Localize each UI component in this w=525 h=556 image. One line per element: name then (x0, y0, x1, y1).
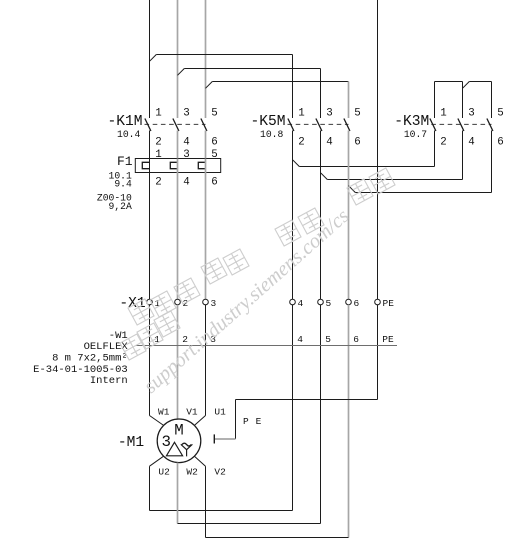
motor M1 body circle (157, 419, 201, 463)
terminal X1:3 circle (203, 299, 209, 305)
svg-text:1: 1 (155, 149, 161, 161)
node T-junction on L2 feeding branch to K5M:3 (178, 69, 185, 76)
svg-text:1: 1 (298, 108, 304, 120)
wire motor W2 vertical to bottom link (177, 463, 179, 524)
wire link K5M:6 to K3M:6 horizontal (355, 192, 491, 194)
svg-text:4: 4 (468, 136, 474, 148)
wire X1:6 down to bottom link of motor V2 (348, 305, 350, 538)
overload relay F1 pole 2 wire through box (177, 159, 179, 173)
motor M1 AC tilde symbol (182, 443, 191, 446)
wire motor W1 stub diagonal (150, 416, 164, 426)
svg-text:5: 5 (325, 334, 331, 345)
node junction K5M:6 branch diagonal (349, 186, 356, 193)
svg-text:-K5M: -K5M (250, 114, 285, 130)
wire branch L1 to K5M:1 horizontal (156, 54, 292, 56)
wire motor U1 stub diagonal (194, 416, 205, 426)
svg-text:PE: PE (383, 298, 395, 309)
svg-text:Intern: Intern (90, 375, 128, 387)
wire bottom link V2 to X1:6 horizontal (206, 537, 349, 539)
svg-text:6: 6 (497, 136, 503, 148)
wire K5M:6 down to X1:6 (348, 131, 350, 300)
svg-text:U1: U1 (214, 407, 226, 418)
svg-text:4: 4 (183, 136, 189, 148)
svg-text:F1: F1 (117, 154, 133, 169)
contactor K3M pole 2 NO contact lever (458, 119, 464, 132)
wire K3M:2 vertical down to link (434, 131, 436, 167)
terminal X1:PE circle (375, 299, 381, 305)
svg-text:3: 3 (183, 108, 189, 120)
svg-text:W2: W2 (186, 466, 198, 477)
svg-text:1: 1 (440, 108, 446, 120)
svg-text:2: 2 (298, 136, 304, 148)
node star-bridge T-junction diagonal at K3M pin 3 (463, 82, 470, 89)
svg-text:10.4: 10.4 (117, 129, 140, 140)
motor M1 delta winding symbol (166, 442, 182, 456)
svg-text:P E: P E (243, 416, 262, 427)
svg-text:8 m 7x2,5mm²: 8 m 7x2,5mm² (52, 353, 128, 365)
wire PE vertical (top to X1:PE) (377, 0, 379, 299)
svg-text:6: 6 (211, 176, 217, 188)
wire L2 phase vertical (top to K1M:3) (177, 0, 179, 118)
svg-text:9,2A: 9,2A (109, 201, 132, 212)
cable -W1 symbol line (136, 345, 397, 347)
watermark chinese characters band (120, 168, 395, 360)
svg-text:5: 5 (211, 108, 217, 120)
wire branch corner down to K5M pin 1 (292, 55, 294, 119)
wire K1M:6 to F1:5 (205, 131, 207, 159)
svg-text:6: 6 (211, 136, 217, 148)
overload relay F1 pole 3 thermal element (198, 162, 205, 168)
wire branch L3 to K5M:5 horizontal (212, 81, 348, 83)
overload relay F1 pole 2 thermal element (170, 162, 177, 168)
motor PE terminal bar (213, 434, 215, 443)
wire K1M:2 to F1:1 (149, 131, 151, 159)
wire K3M:6 vertical down to link (491, 131, 493, 193)
terminal X1:6 circle (346, 299, 352, 305)
svg-text:10.8: 10.8 (260, 129, 283, 140)
node T-junction on L3 feeding branch to K5M:5 (206, 82, 213, 89)
wire branch corner down to K5M pin 3 (320, 69, 322, 119)
contactor K1M pole 1 NO contact lever (145, 119, 151, 132)
contactor K5M pole 2 NO contact lever (316, 119, 322, 132)
svg-text:3: 3 (183, 149, 189, 161)
svg-text:-K1M: -K1M (107, 114, 142, 130)
node T-junction on L1 feeding branch to K5M:1 (150, 55, 157, 62)
wire X1:5 down to bottom link of motor W2 (320, 305, 322, 524)
svg-text:4: 4 (297, 334, 303, 345)
svg-text:M: M (174, 421, 183, 439)
svg-text:4: 4 (298, 298, 304, 309)
svg-text:3: 3 (468, 108, 474, 120)
overload relay F1 pole 1 wire through box (149, 159, 151, 173)
svg-text:6: 6 (353, 334, 359, 345)
wire X1:PE down to PE corner (377, 305, 379, 400)
svg-text:2: 2 (155, 176, 161, 188)
svg-text:2: 2 (155, 136, 161, 148)
wire K3M:4 vertical down to link (462, 131, 464, 180)
wire K5M:2 down to X1:4 (292, 131, 294, 300)
wire L3 phase vertical (top to K1M:5) (205, 0, 207, 118)
motor M1 wye winding symbol (181, 444, 193, 456)
wire bottom link W2 to X1:5 horizontal (178, 523, 321, 525)
wire motor U2 stub diagonal (150, 456, 164, 466)
svg-text:6: 6 (354, 298, 360, 309)
wire motor U2 vertical to bottom link (149, 466, 151, 510)
svg-text:5: 5 (354, 108, 360, 120)
contactor K3M pole 1 NO contact lever (430, 119, 436, 132)
wire K3M star bridge down to K3M pin 1 (434, 82, 436, 119)
overload relay F1 pole 3 wire through box (205, 159, 207, 173)
wire motor V2 stub diagonal (194, 456, 205, 466)
contactor K5M pole 1 NO contact lever (288, 119, 294, 132)
terminal X1:4 circle (290, 299, 296, 305)
wire link K5M:4 to K3M:4 horizontal (327, 179, 462, 181)
svg-text:10.7: 10.7 (404, 129, 427, 140)
wire L1 phase vertical (top to K1M:1) (149, 0, 151, 118)
svg-text:U2: U2 (158, 466, 170, 477)
wire X1:1 down to motor W1 (149, 305, 151, 416)
wire F1:4 to X1:2 (177, 173, 179, 300)
wire K3M pin 3 vertical to bridge (462, 82, 464, 119)
overload relay F1 pole 1 thermal element (142, 162, 149, 168)
svg-text:5: 5 (211, 149, 217, 161)
terminal X1:5 circle (318, 299, 324, 305)
svg-text:W1: W1 (158, 407, 170, 418)
svg-text:PE: PE (382, 334, 394, 345)
wire X1:2 down to motor V1 (177, 305, 179, 419)
wire bottom link U2 to X1:4 horizontal (150, 510, 293, 512)
terminal X1:1 circle (147, 299, 153, 305)
wire motor V2 vertical to bottom link (205, 466, 207, 537)
svg-text:-X1: -X1 (119, 296, 146, 312)
node junction K5M:2 branch diagonal (293, 160, 300, 167)
wire X1:3 down to motor U1 (205, 305, 207, 416)
contactor K1M mechanical linkage dashed line (145, 123, 206, 125)
wire PE horizontal into motor PE terminal (214, 438, 235, 440)
svg-text:2: 2 (440, 136, 446, 148)
contactor K3M mechanical linkage dashed line (431, 123, 491, 125)
wire K5M:4 down to X1:5 (320, 131, 322, 300)
contactor K5M mechanical linkage dashed line (288, 123, 349, 125)
wire F1:2 to X1:1 (149, 173, 151, 300)
wire K3M star bridge down to K3M pin 5 (491, 82, 493, 119)
wire K3M star-point bridge horizontal left part (435, 81, 463, 83)
wire branch corner down to K5M pin 5 (348, 82, 350, 119)
svg-text:E-34-01-1005-03: E-34-01-1005-03 (33, 364, 128, 376)
svg-text:-K3M: -K3M (394, 114, 429, 130)
svg-text:4: 4 (326, 136, 332, 148)
wire link K5M:2 to K3M:2 horizontal (299, 166, 434, 168)
svg-text:3: 3 (161, 433, 170, 451)
svg-text:9.4: 9.4 (114, 178, 132, 189)
svg-text:4: 4 (183, 176, 189, 188)
wire PE horizontal toward motor (236, 399, 378, 401)
contactor K3M pole 3 NO contact lever (487, 119, 493, 132)
svg-text:-M1: -M1 (118, 435, 145, 451)
wire K1M:4 to F1:3 (177, 131, 179, 159)
svg-text:3: 3 (211, 298, 217, 309)
svg-text:3: 3 (326, 108, 332, 120)
svg-text:5: 5 (326, 298, 332, 309)
svg-text:5: 5 (497, 108, 503, 120)
svg-text:6: 6 (354, 136, 360, 148)
svg-text:V1: V1 (186, 407, 198, 418)
node junction K5M:4 branch diagonal (321, 173, 328, 180)
svg-text:1: 1 (155, 108, 161, 120)
terminal X1:2 circle (175, 299, 181, 305)
contactor K5M pole 3 NO contact lever (344, 119, 350, 132)
wire K3M star-point bridge horizontal right part (469, 81, 491, 83)
contactor K1M pole 3 NO contact lever (201, 119, 207, 132)
wire branch L2 to K5M:3 horizontal (184, 68, 320, 70)
wire F1:6 to X1:3 (205, 173, 207, 300)
wire PE vertical drop beside motor (235, 400, 237, 440)
overload relay F1 body box (135, 159, 220, 173)
svg-text:V2: V2 (214, 466, 226, 477)
wire X1:4 down to bottom link of motor U2 (292, 305, 294, 511)
contactor K1M pole 2 NO contact lever (173, 119, 179, 132)
